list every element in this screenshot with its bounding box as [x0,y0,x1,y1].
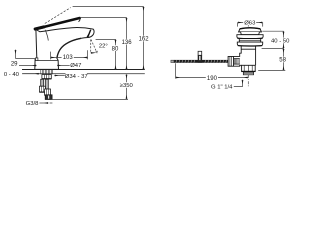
svg-text:136: 136 [122,40,133,46]
svg-text:Ø63: Ø63 [244,21,256,27]
hose fitting right G3/8 [45,89,51,95]
dim 40-50 bottom reference [262,48,284,50]
label 136 [121,39,133,45]
svg-text:G 1" 1/4: G 1" 1/4 [211,84,233,90]
tail thread G 1 1/4 [243,72,253,75]
threaded shank [41,70,53,75]
dim 40-50 top reference [262,30,283,32]
leader G 1 1/4 [234,80,243,87]
aerator stripe [88,30,91,38]
svg-text:103: 103 [63,55,74,61]
svg-text:22°: 22° [99,43,108,49]
svg-text:Ø34 - 37: Ø34 - 37 [65,74,88,80]
dim 58 line [283,49,285,71]
drain body [234,46,256,66]
label 40 - 50 [271,38,290,44]
dim 162 extension [73,6,144,8]
plug neck [241,32,260,35]
dim 58 bottom reference [258,69,285,71]
label Ø34 - 37 [66,73,87,79]
label 103 [62,54,74,59]
supply hose left [41,79,44,86]
dim 103 right extension [87,50,89,59]
tail nut [242,65,256,71]
dim 40-50 line [283,31,285,48]
dim 29 reference line [15,58,35,60]
svg-text:58: 58 [279,58,286,64]
aerator lower detail [87,34,89,37]
handle lever [35,18,80,29]
drain plug cap [239,28,262,32]
svg-text:40 - 50: 40 - 50 [271,39,290,45]
label >=350 [120,82,133,88]
22 degree arc [91,51,98,53]
handle hook [79,18,80,22]
dim 29 leader to base [19,65,37,67]
svg-text:190: 190 [207,76,218,82]
supply hose right [45,79,48,89]
inlet thread stub [234,59,239,64]
label 80 [111,45,119,51]
dim 103 line [51,57,88,59]
dim 190 left extension [175,63,177,78]
pipe end cap [171,60,174,62]
deck bottom line [22,73,145,75]
spout underside accent [57,38,81,58]
leader Ø34-37 [54,75,65,77]
label 162 [138,36,150,42]
label 190 [206,75,218,80]
29 step tab [36,58,38,61]
label 58 [279,57,287,63]
dim Ø63 line [238,22,263,24]
hose clearance extension line [52,98,129,100]
dim 29 upper extension arrow [15,50,17,59]
svg-text:80: 80 [112,46,119,52]
dim 190 line [176,77,249,79]
svg-text:29: 29 [11,62,18,68]
dim 162 line [143,7,145,70]
drain centerline top [247,25,249,28]
dim >=350 line [126,74,128,99]
svg-text:≥350: ≥350 [120,83,134,89]
plug flange 1 [237,35,263,39]
leader G3/8 [39,102,48,104]
svg-text:G3/8: G3/8 [26,101,39,107]
dim 0-40 leader to deck [23,73,39,75]
drain rod pipe [174,60,228,63]
dim 103 left extension [50,52,52,60]
body inner seam [45,30,48,41]
label Ø63 [243,20,256,25]
svg-text:0 - 40: 0 - 40 [4,72,20,78]
hose fitting left G3/8 [40,86,46,92]
stream vertical dashed [90,40,92,53]
dim 80 extension [96,38,116,40]
leader Ø47 [57,64,70,66]
drain centerline bottom [247,75,249,86]
raised handle dashed [45,8,71,24]
dim 136 extension [80,17,127,19]
deck top line [22,69,145,71]
inlet nut [228,57,233,67]
svg-text:Ø47: Ø47 [70,63,81,69]
plug ring [239,39,260,43]
stream 22deg dashed [91,40,97,54]
shank nut [42,75,51,79]
faucet body with spout [35,28,94,70]
plug flange 2 [237,42,262,46]
base step line [35,59,58,61]
right fitting end block [45,95,52,100]
dim 80 line [115,39,117,69]
svg-text:162: 162 [139,37,150,43]
dim Ø63 legs [238,23,263,27]
rod clamp [198,51,202,55]
dim 136 line [126,18,128,70]
